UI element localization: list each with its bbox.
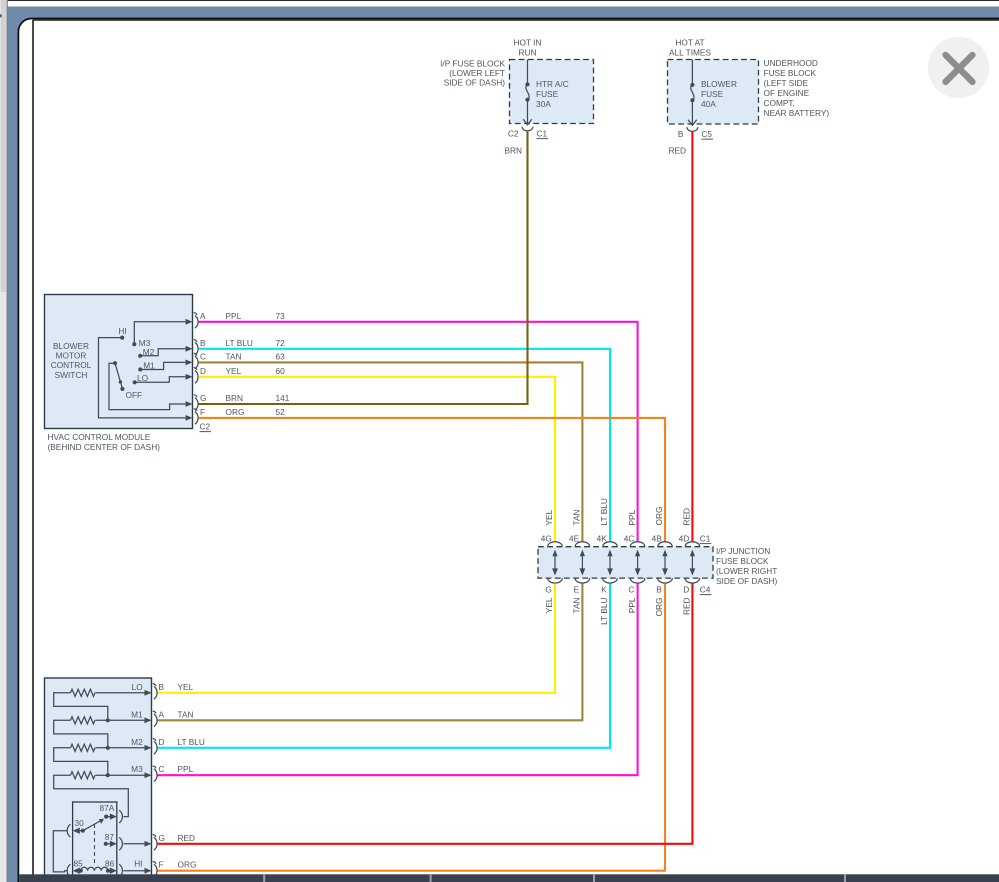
svg-text:30: 30 bbox=[75, 818, 85, 828]
svg-text:ORG: ORG bbox=[654, 598, 664, 617]
relay dashed link line bbox=[94, 824, 96, 864]
svg-text:4D: 4D bbox=[679, 534, 690, 544]
HVAC pin G connector bbox=[186, 395, 199, 411]
HVAC pin F connector bbox=[186, 409, 199, 425]
svg-text:40A: 40A bbox=[701, 99, 716, 109]
svg-text:4B: 4B bbox=[652, 534, 663, 544]
svg-text:LT BLU: LT BLU bbox=[178, 737, 205, 747]
connector C2/C1 arc under fuse box bbox=[522, 127, 533, 131]
wire LO to pin D bbox=[135, 377, 186, 383]
svg-text:B: B bbox=[200, 338, 206, 348]
svg-text:B: B bbox=[159, 682, 165, 692]
label C5 (underlined) bbox=[701, 129, 713, 139]
label pin B YEL bbox=[159, 682, 194, 692]
wire BRN 141 (HVAC G to I/P fuse C1) bbox=[199, 131, 528, 404]
svg-text:85: 85 bbox=[74, 859, 84, 869]
wire PPL (junction to blower resistor block) bbox=[157, 584, 638, 776]
svg-text:RED: RED bbox=[682, 508, 692, 526]
junction terminal 4D/D (RED) bbox=[685, 542, 700, 583]
label 4K bbox=[597, 534, 608, 544]
rotated label LT BLU above junction bbox=[599, 498, 609, 525]
svg-text:87A: 87A bbox=[100, 803, 115, 813]
label I/P FUSE BLOCK (LOWER LEFT SIDE OF DASH) bbox=[440, 59, 505, 88]
junction terminal 4E/E (TAN) bbox=[575, 542, 590, 583]
rotated label PPL below junction bbox=[627, 597, 637, 613]
HVAC pin D connector bbox=[186, 368, 199, 384]
svg-text:4C: 4C bbox=[624, 534, 635, 544]
svg-text:87: 87 bbox=[105, 832, 115, 842]
svg-text:RED: RED bbox=[668, 146, 686, 156]
label 4D bbox=[679, 534, 690, 544]
relay pin 87A bbox=[100, 803, 123, 823]
svg-text:FUSE BLOCK: FUSE BLOCK bbox=[716, 556, 769, 566]
blower motor resistor block box bbox=[45, 678, 152, 877]
scrollbar track (left strip) bbox=[0, 0, 7, 882]
svg-text:D: D bbox=[200, 366, 206, 376]
svg-text:F: F bbox=[159, 860, 164, 870]
svg-text:C5: C5 bbox=[701, 129, 712, 139]
series link M1 to next tap bbox=[54, 720, 108, 748]
svg-text:PPL: PPL bbox=[178, 764, 194, 774]
svg-text:LO: LO bbox=[137, 373, 149, 383]
svg-text:YEL: YEL bbox=[226, 366, 242, 376]
rotated label YEL above junction bbox=[544, 509, 554, 525]
diagram frame top line bbox=[33, 19, 999, 21]
rotated label RED below junction bbox=[682, 598, 692, 616]
label pin A TAN bbox=[159, 709, 194, 719]
svg-text:YEL: YEL bbox=[178, 682, 194, 692]
svg-text:30A: 30A bbox=[536, 99, 551, 109]
svg-text:BRN: BRN bbox=[226, 393, 244, 403]
fuse HTR A/C 30A bbox=[523, 60, 532, 125]
label pin C TAN 63 bbox=[200, 351, 285, 361]
label pin A PPL 73 bbox=[200, 311, 285, 321]
svg-text:OF ENGINE: OF ENGINE bbox=[764, 88, 810, 98]
rotated label ORG below junction bbox=[654, 598, 664, 617]
switch position M2 bbox=[138, 347, 155, 358]
svg-text:52: 52 bbox=[276, 407, 286, 417]
wire relay 87 to pin G bbox=[123, 843, 146, 845]
svg-text:I/P FUSE BLOCK: I/P FUSE BLOCK bbox=[440, 59, 505, 69]
svg-text:72: 72 bbox=[276, 338, 286, 348]
svg-text:K: K bbox=[601, 585, 607, 595]
svg-text:141: 141 bbox=[276, 393, 290, 403]
relay coil 85/86 bbox=[67, 859, 122, 878]
label BRN bbox=[504, 146, 522, 156]
svg-text:NEAR BATTERY): NEAR BATTERY) bbox=[764, 108, 830, 118]
svg-text:D: D bbox=[683, 585, 689, 595]
svg-text:(LOWER LEFT: (LOWER LEFT bbox=[449, 68, 505, 78]
svg-text:HVAC CONTROL MODULE: HVAC CONTROL MODULE bbox=[48, 432, 151, 442]
underhood fuse block (dashed box) bbox=[668, 60, 759, 125]
wire TAN (junction to blower resistor block) bbox=[157, 584, 582, 721]
relay pin 87 bbox=[104, 832, 123, 850]
label E bbox=[574, 585, 580, 595]
label D bbox=[683, 585, 689, 595]
svg-text:D: D bbox=[159, 737, 165, 747]
wire LT BLU 72 (HVAC B to junction 4K) bbox=[199, 349, 611, 542]
svg-text:YEL: YEL bbox=[544, 597, 554, 613]
svg-text:C1: C1 bbox=[537, 129, 548, 139]
label B bbox=[656, 585, 662, 595]
switch wiper lever (pivot to OFF) bbox=[113, 361, 122, 387]
svg-text:BLOWER: BLOWER bbox=[701, 79, 737, 89]
svg-text:4G: 4G bbox=[541, 534, 552, 544]
label C bbox=[628, 585, 634, 595]
label HOT IN RUN bbox=[514, 38, 542, 58]
wire TAN 63 (HVAC C to junction 4E) bbox=[199, 362, 583, 541]
wire ORG 52 (HVAC F to junction 4B) bbox=[199, 418, 666, 542]
label C2 (HVAC connector, underlined) bbox=[200, 422, 212, 432]
HVAC pin C connector bbox=[186, 353, 199, 369]
rotated label TAN below junction bbox=[572, 597, 582, 613]
svg-text:C1: C1 bbox=[700, 534, 711, 544]
top hairline bbox=[8, 0, 999, 1]
junction terminal 4G/G (YEL) bbox=[548, 542, 563, 583]
rotated label TAN above junction bbox=[572, 510, 582, 526]
toolbar dividers bbox=[263, 874, 846, 882]
label C1 (junction top, underlined) bbox=[700, 534, 712, 544]
svg-text:C: C bbox=[628, 585, 634, 595]
label I/P JUNCTION FUSE BLOCK (LOWER RIGHT SIDE OF DASH) bbox=[716, 546, 778, 586]
wire M2 to pin B bbox=[140, 349, 185, 356]
label pin F ORG 52 bbox=[200, 407, 285, 417]
resistor block pin A connector bbox=[145, 711, 158, 727]
svg-text:LT BLU: LT BLU bbox=[599, 498, 609, 525]
label pin C PPL bbox=[159, 764, 194, 774]
svg-text:G: G bbox=[200, 393, 206, 403]
svg-text:BRN: BRN bbox=[504, 146, 522, 156]
label HVAC CONTROL MODULE (BEHIND CENTER OF DASH) bbox=[48, 432, 161, 452]
switch position OFF bbox=[120, 387, 142, 400]
svg-text:M2: M2 bbox=[131, 737, 143, 747]
resistor M3 row bbox=[71, 772, 147, 779]
I/P junction fuse block (dashed box) bbox=[538, 547, 713, 578]
HVAC pin A connector bbox=[186, 313, 199, 329]
svg-text:TAN: TAN bbox=[178, 709, 194, 719]
resistor block pin C connector bbox=[145, 766, 158, 782]
svg-text:I/P JUNCTION: I/P JUNCTION bbox=[716, 546, 770, 556]
svg-text:CONTROL: CONTROL bbox=[51, 360, 92, 370]
junction terminal 4K/K (LT BLU) bbox=[603, 542, 618, 583]
svg-text:63: 63 bbox=[276, 351, 286, 361]
svg-text:OFF: OFF bbox=[126, 390, 143, 400]
label pin G BRN 141 bbox=[200, 393, 290, 403]
label UNDERHOOD FUSE BLOCK (LEFT SIDE OF ENGINE COMPT, NEAR BATTERY) bbox=[764, 58, 830, 118]
junction terminal 4C/C (PPL) bbox=[630, 542, 645, 583]
rotated label ORG above junction bbox=[654, 507, 664, 526]
HVAC pin B connector bbox=[186, 340, 199, 356]
relay pin 30 bbox=[67, 818, 85, 837]
switch position LO bbox=[133, 373, 149, 385]
svg-text:LT BLU: LT BLU bbox=[226, 338, 253, 348]
wire M3 to pin A bbox=[134, 322, 185, 344]
label C1 (underlined) bbox=[537, 129, 549, 139]
svg-text:HTR A/C: HTR A/C bbox=[536, 79, 569, 89]
label M3 bbox=[131, 764, 143, 774]
svg-text:PPL: PPL bbox=[627, 509, 637, 525]
svg-text:C2: C2 bbox=[508, 129, 519, 139]
svg-text:HOT IN: HOT IN bbox=[514, 38, 542, 48]
svg-text:TAN: TAN bbox=[226, 351, 242, 361]
label 4E bbox=[569, 534, 580, 544]
label HTR A/C FUSE 30A bbox=[536, 79, 569, 109]
svg-text:G: G bbox=[545, 585, 551, 595]
label HI (relay coil input) bbox=[134, 858, 142, 868]
label BLOWER FUSE 40A bbox=[701, 79, 737, 109]
svg-text:E: E bbox=[574, 585, 580, 595]
series link LO to next tap bbox=[54, 693, 108, 721]
svg-text:(LOWER RIGHT: (LOWER RIGHT bbox=[716, 566, 777, 576]
resistor block pin F connector bbox=[145, 862, 158, 878]
wire LT BLU (junction to blower resistor block) bbox=[157, 584, 610, 748]
HVAC control module box bbox=[45, 295, 193, 429]
svg-text:PPL: PPL bbox=[226, 311, 242, 321]
svg-text:A: A bbox=[159, 709, 165, 719]
label 4B bbox=[652, 534, 663, 544]
svg-text:B: B bbox=[656, 585, 662, 595]
resistor M1 row bbox=[71, 717, 147, 724]
wire relay 30 to coil 85 side bbox=[53, 831, 67, 872]
label M2 bbox=[131, 737, 143, 747]
wire pivot to pin G bbox=[109, 363, 185, 409]
resistor M2 row bbox=[71, 744, 147, 751]
switch position M3 bbox=[132, 338, 151, 348]
svg-text:UNDERHOOD: UNDERHOOD bbox=[764, 58, 818, 68]
svg-text:ORG: ORG bbox=[654, 507, 664, 526]
svg-text:LT BLU: LT BLU bbox=[599, 598, 609, 625]
label pin G RED bbox=[159, 833, 196, 843]
relay box bbox=[73, 802, 117, 877]
label C4 (junction bottom, underlined) bbox=[700, 585, 712, 595]
svg-text:C4: C4 bbox=[700, 585, 711, 595]
label pin B LT BLU 72 bbox=[200, 338, 285, 348]
switch position M1 bbox=[138, 361, 155, 372]
rotated label RED above junction bbox=[682, 508, 692, 526]
svg-text:BLOWER: BLOWER bbox=[53, 341, 89, 351]
svg-text:A: A bbox=[200, 311, 206, 321]
label M1 bbox=[131, 709, 143, 719]
svg-text:ALL TIMES: ALL TIMES bbox=[669, 48, 711, 58]
label B bbox=[678, 129, 684, 139]
svg-text:RUN: RUN bbox=[519, 48, 537, 58]
svg-text:FUSE: FUSE bbox=[701, 89, 724, 99]
label pin F ORG bbox=[159, 860, 197, 870]
svg-text:LO: LO bbox=[132, 682, 144, 692]
svg-text:HOT AT: HOT AT bbox=[675, 38, 704, 48]
resistor LO row bbox=[71, 689, 147, 696]
series link M2 to next tap bbox=[54, 748, 108, 775]
fuse BLOWER 40A bbox=[688, 60, 697, 126]
label K bbox=[601, 585, 607, 595]
svg-text:C: C bbox=[200, 351, 206, 361]
I/P fuse block (dashed box) bbox=[510, 60, 594, 124]
resistor block pin G connector bbox=[145, 835, 158, 851]
svg-text:(BEHIND CENTER OF DASH): (BEHIND CENTER OF DASH) bbox=[48, 442, 161, 452]
label HOT AT ALL TIMES bbox=[669, 38, 711, 58]
wire M1 to pin C bbox=[140, 362, 185, 369]
label BLOWER MOTOR CONTROL SWITCH bbox=[51, 341, 92, 380]
svg-text:RED: RED bbox=[178, 833, 196, 843]
svg-text:SWITCH: SWITCH bbox=[55, 370, 88, 380]
label 4C bbox=[624, 534, 635, 544]
wire HI to pin F bbox=[99, 338, 186, 418]
close button bbox=[928, 37, 989, 98]
svg-text:4K: 4K bbox=[597, 534, 608, 544]
svg-text:C2: C2 bbox=[200, 422, 211, 432]
rotated label LT BLU below junction bbox=[599, 598, 609, 625]
svg-text:PPL: PPL bbox=[627, 597, 637, 613]
svg-text:HI: HI bbox=[118, 326, 126, 336]
rotated label YEL below junction bbox=[544, 597, 554, 613]
svg-text:MOTOR: MOTOR bbox=[56, 351, 87, 361]
bottom toolbar bbox=[19, 874, 999, 882]
junction terminal 4B/B (ORG) bbox=[658, 542, 673, 583]
svg-text:73: 73 bbox=[276, 311, 286, 321]
svg-text:FUSE BLOCK: FUSE BLOCK bbox=[764, 68, 817, 78]
svg-text:(LEFT SIDE: (LEFT SIDE bbox=[764, 78, 809, 88]
svg-text:C: C bbox=[159, 764, 165, 774]
wire relay 86 to pin F bbox=[123, 870, 146, 872]
svg-text:COMPT,: COMPT, bbox=[764, 98, 795, 108]
label 4G bbox=[541, 534, 552, 544]
label G bbox=[545, 585, 551, 595]
switch position HI (label + contact dot) bbox=[118, 326, 126, 340]
svg-text:60: 60 bbox=[276, 366, 286, 376]
svg-text:YEL: YEL bbox=[544, 509, 554, 525]
wire YEL (junction to blower resistor block) bbox=[157, 584, 555, 693]
svg-text:ORG: ORG bbox=[226, 407, 245, 417]
diagram frame left line bbox=[32, 20, 34, 876]
svg-text:M1: M1 bbox=[131, 709, 143, 719]
label LO bbox=[132, 682, 144, 692]
relay contact lever 30 to 87A bbox=[83, 819, 104, 831]
wire ORG (junction to blower resistor block) bbox=[157, 584, 665, 871]
svg-text:HI: HI bbox=[134, 858, 142, 868]
scrollbar dark divider line bbox=[7, 0, 8, 882]
svg-text:ORG: ORG bbox=[178, 860, 197, 870]
rotated label PPL above junction bbox=[627, 509, 637, 525]
connector B/C5 arc under fuse box bbox=[687, 127, 698, 131]
series link M3 to relay 87A bbox=[54, 775, 129, 816]
wire RED (junction to blower resistor block) bbox=[157, 584, 692, 844]
svg-text:B: B bbox=[678, 129, 684, 139]
svg-text:M3: M3 bbox=[131, 764, 143, 774]
svg-text:F: F bbox=[200, 407, 205, 417]
svg-text:SIDE OF DASH): SIDE OF DASH) bbox=[444, 78, 506, 88]
svg-text:SIDE OF DASH): SIDE OF DASH) bbox=[716, 576, 778, 586]
svg-text:RED: RED bbox=[682, 598, 692, 616]
svg-text:FUSE: FUSE bbox=[536, 89, 559, 99]
wire YEL 60 (HVAC D to junction 4G) bbox=[199, 377, 556, 542]
label C2 bbox=[508, 129, 519, 139]
label pin D YEL 60 bbox=[200, 366, 285, 376]
label pin D LT BLU bbox=[159, 737, 205, 747]
svg-text:4E: 4E bbox=[569, 534, 580, 544]
wire PPL 73 (HVAC A to junction 4C) bbox=[199, 322, 638, 542]
resistor block pin B connector bbox=[145, 684, 158, 700]
svg-text:G: G bbox=[159, 833, 165, 843]
svg-text:TAN: TAN bbox=[572, 597, 582, 613]
label RED bbox=[668, 146, 686, 156]
svg-text:TAN: TAN bbox=[572, 510, 582, 526]
resistor block pin D connector bbox=[145, 739, 158, 755]
wire RED (underhood fuse C5 to junction 4D) bbox=[691, 131, 693, 541]
